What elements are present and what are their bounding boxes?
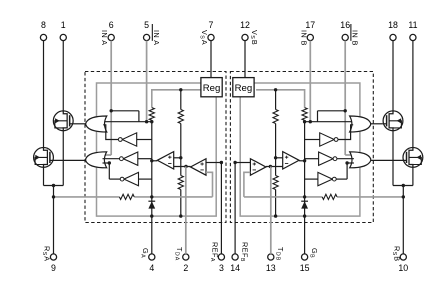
node sense tap A bbox=[52, 195, 55, 198]
wire pin11 to Q4 drain bbox=[412, 41, 414, 148]
wire Q1 gate bbox=[73, 123, 86, 125]
wire pin1 to Q1 drain bbox=[62, 41, 64, 112]
pin 5 terminal bbox=[144, 20, 161, 45]
wire R3B to common bbox=[275, 190, 277, 217]
wire U2B input bbox=[305, 139, 320, 141]
resistor R1B bbox=[302, 108, 307, 121]
node D1B common junction bbox=[303, 214, 306, 217]
node comparator U1B plus input bbox=[274, 156, 277, 159]
svg-text:13: 13 bbox=[266, 263, 276, 273]
svg-text:6: 6 bbox=[109, 20, 114, 30]
wire IN B-bar tap bbox=[318, 110, 346, 112]
node rail GA line bbox=[151, 120, 153, 254]
wire to U4A output bbox=[108, 163, 110, 179]
wire IN A pin6 input bbox=[110, 41, 112, 155]
svg-text:IN B: IN B bbox=[299, 30, 308, 46]
pin 15 terminal bbox=[300, 248, 319, 273]
wire REFA to pin3 bbox=[220, 163, 222, 254]
wire R2B to R3B bbox=[275, 158, 277, 176]
wire IN B-bar pin16 input bbox=[344, 41, 346, 155]
inverter U2A bbox=[122, 133, 137, 146]
wire U3A input bbox=[138, 158, 152, 160]
node R3A common junction bbox=[179, 214, 182, 217]
wire U5B plus input to REFB bbox=[235, 162, 250, 164]
comparator U1A bbox=[157, 152, 173, 169]
pin 7 terminal bbox=[199, 20, 214, 45]
pin 1 terminal bbox=[60, 20, 66, 40]
svg-text:4: 4 bbox=[149, 263, 154, 273]
or-gate G2A bbox=[86, 152, 107, 168]
node IN B-bar tap junction bbox=[344, 109, 347, 112]
pin 6 terminal bbox=[100, 20, 114, 45]
Reg A output wire bbox=[152, 90, 201, 108]
svg-text:8: 8 bbox=[41, 20, 46, 30]
svg-text:15: 15 bbox=[300, 263, 310, 273]
wire G1A lower input loop bbox=[103, 125, 118, 140]
wire G2B third input bbox=[347, 162, 354, 164]
pin 17 terminal bbox=[299, 20, 315, 46]
or-gate G1A bbox=[86, 116, 107, 132]
wire U3A output to G2A bbox=[103, 158, 120, 160]
svg-text:9: 9 bbox=[51, 263, 56, 273]
resistor R3B bbox=[273, 176, 278, 190]
node G2B input junction bbox=[345, 161, 348, 164]
wire TDB bbox=[270, 167, 272, 254]
wire R2B to comparator U1B bbox=[275, 124, 277, 158]
node REFB junction bbox=[233, 161, 236, 164]
wire Q4 source bbox=[412, 167, 414, 185]
wire Q3 source bbox=[392, 131, 394, 186]
node rail B corner bbox=[303, 120, 306, 123]
wire U1B output bbox=[299, 160, 305, 162]
inner solid box block B bbox=[240, 83, 360, 216]
svg-text:14: 14 bbox=[230, 263, 240, 273]
svg-text:2: 2 bbox=[183, 263, 188, 273]
svg-text:IN A: IN A bbox=[152, 30, 161, 46]
pin 11 terminal bbox=[408, 20, 417, 40]
wire U1B minus input bbox=[266, 166, 283, 168]
wire current sense line A bbox=[54, 196, 120, 198]
node rail GB line bbox=[304, 120, 306, 254]
wire U5A plus input to REFA bbox=[206, 162, 221, 164]
wire Q2 source bbox=[43, 167, 45, 185]
resistor R2A tap bbox=[179, 88, 182, 91]
node comparator U1A plus input bbox=[179, 156, 182, 159]
node source join A bbox=[52, 184, 55, 187]
wire to pin10 RSB bbox=[402, 186, 404, 254]
wire IN B pin17 input bbox=[309, 41, 311, 122]
inverter U4B bbox=[318, 172, 333, 185]
diode D1B bbox=[301, 200, 308, 202]
wire Q4 gate bbox=[371, 159, 403, 161]
comparator U5B bbox=[250, 159, 266, 176]
node D1A common junction bbox=[150, 214, 153, 217]
pin 13 terminal bbox=[266, 247, 285, 273]
resistor R1A bbox=[149, 108, 154, 121]
svg-text:5: 5 bbox=[144, 20, 149, 30]
node IN B junction bbox=[309, 120, 312, 123]
resistor R4A bbox=[119, 194, 134, 199]
wire G2A third input bbox=[103, 162, 110, 164]
node source join B bbox=[402, 184, 405, 187]
node U1A output junction bbox=[150, 159, 153, 162]
or-gate G1B bbox=[350, 116, 371, 132]
wire Q3 gate bbox=[371, 123, 383, 125]
svg-text:16: 16 bbox=[340, 20, 350, 30]
wire U3B input bbox=[305, 158, 319, 160]
node R3B common junction bbox=[274, 214, 277, 217]
svg-text:IN A: IN A bbox=[100, 30, 109, 46]
regulator Reg A bbox=[201, 78, 222, 97]
node TDA junction bbox=[184, 165, 187, 168]
svg-text:Reg: Reg bbox=[235, 83, 253, 94]
pin 3 terminal bbox=[209, 242, 224, 273]
resistor R2B bbox=[273, 110, 278, 124]
wire source join B bbox=[393, 185, 413, 187]
resistor R3A bbox=[178, 176, 183, 190]
resistor R2A bbox=[178, 110, 183, 124]
wire U4A input bbox=[139, 178, 152, 180]
wire U1A minus input bbox=[174, 166, 191, 168]
svg-text:12: 12 bbox=[240, 20, 250, 30]
inverter U4A bbox=[124, 172, 139, 185]
wire pin7 VSA to Reg A bbox=[210, 41, 212, 78]
wire source join A bbox=[44, 185, 64, 187]
dashed boundary block B bbox=[230, 72, 373, 223]
wire U4B input bbox=[305, 178, 318, 180]
node G2A input junction bbox=[108, 161, 111, 164]
wire R2A to comparator U1A bbox=[180, 124, 182, 158]
wire current sense line B bbox=[337, 196, 403, 198]
pin 12 terminal bbox=[240, 20, 259, 45]
dashed boundary block A bbox=[85, 72, 226, 223]
svg-text:IN B: IN B bbox=[350, 30, 359, 46]
node REFA junction bbox=[220, 161, 223, 164]
inverter U2B bbox=[320, 133, 335, 146]
wire pin8 to Q2 drain bbox=[43, 41, 45, 148]
node TDB junction bbox=[269, 165, 272, 168]
Reg B output wire bbox=[256, 90, 305, 108]
resistor R4B bbox=[322, 194, 337, 199]
transistor Q2 bbox=[34, 148, 54, 168]
svg-text:1: 1 bbox=[61, 20, 66, 30]
wire IN A tap bbox=[111, 110, 139, 112]
transistor Q1 bbox=[53, 111, 73, 131]
pin 9 terminal bbox=[41, 246, 56, 273]
pin 4 terminal bbox=[140, 248, 155, 273]
or-gate G2B bbox=[350, 152, 371, 168]
svg-text:11: 11 bbox=[408, 20, 417, 30]
node IN A-bar junction bbox=[145, 120, 148, 123]
svg-text:7: 7 bbox=[209, 20, 214, 30]
inner solid box block A bbox=[97, 83, 217, 216]
wire U5A minus input sense bbox=[206, 172, 213, 197]
wire IN A-bar pin5 input bbox=[146, 41, 148, 122]
comparator U1B bbox=[283, 152, 299, 169]
inverter U3B bbox=[319, 152, 334, 165]
pin 2 terminal bbox=[174, 247, 189, 273]
svg-text:Reg: Reg bbox=[203, 83, 221, 94]
wire to pin9 RSA bbox=[53, 186, 55, 254]
pin 8 terminal bbox=[40, 20, 46, 40]
node sense diode junction bbox=[150, 195, 153, 198]
transistor Q3 bbox=[383, 111, 403, 131]
wire pin12 VSB to Reg B bbox=[244, 41, 246, 78]
pin 18 terminal bbox=[388, 20, 398, 40]
node IN A tap junction bbox=[110, 109, 113, 112]
svg-text:10: 10 bbox=[398, 263, 408, 273]
svg-text:18: 18 bbox=[388, 20, 398, 30]
wire logic rail A bbox=[103, 121, 152, 123]
pin 16 terminal bbox=[340, 20, 359, 46]
node rail corner bbox=[150, 120, 153, 123]
wire REFB to pin14 bbox=[234, 163, 236, 254]
wire G1B lower input loop bbox=[338, 125, 353, 140]
svg-text:17: 17 bbox=[305, 20, 315, 30]
node sense diode B junction bbox=[303, 195, 306, 198]
diode D1A bbox=[148, 200, 155, 202]
pin 10 terminal bbox=[391, 246, 408, 273]
node sense tap B bbox=[402, 195, 405, 198]
comparator U5A bbox=[191, 159, 207, 176]
wire TDA bbox=[185, 167, 187, 254]
wire U5B minus input sense bbox=[244, 172, 251, 197]
wire Q1 source bbox=[62, 131, 64, 186]
wire to U4B output bbox=[346, 163, 348, 179]
wire U3B output to G2B bbox=[337, 158, 354, 160]
node U1B output junction bbox=[303, 159, 306, 162]
wire R3A to common bbox=[180, 190, 182, 217]
wire U1A output bbox=[152, 160, 158, 162]
wire logic rail B bbox=[305, 121, 354, 123]
wire U2A input bbox=[137, 139, 152, 141]
pin 14 terminal bbox=[230, 242, 249, 273]
svg-text:3: 3 bbox=[219, 263, 224, 273]
wire R2A to R3A bbox=[180, 158, 182, 176]
wire pin18 to Q3 drain bbox=[392, 41, 394, 112]
resistor R2B tap bbox=[274, 88, 277, 91]
transistor Q4 bbox=[403, 148, 423, 168]
regulator Reg B bbox=[233, 78, 254, 97]
inverter U3A bbox=[123, 152, 138, 165]
wire Q2 gate bbox=[53, 159, 85, 161]
